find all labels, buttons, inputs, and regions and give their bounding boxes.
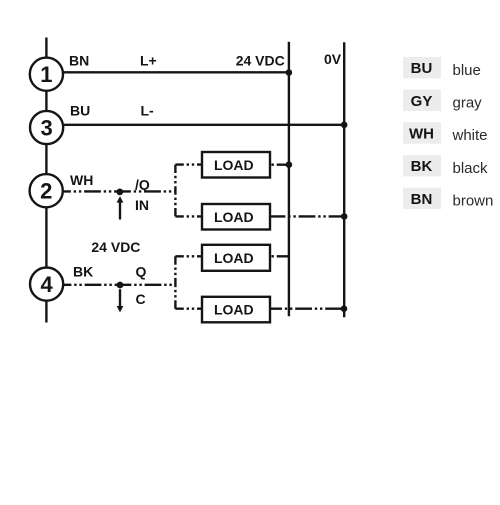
- svg-text:WH: WH: [70, 172, 93, 188]
- svg-text:24 VDC: 24 VDC: [91, 239, 140, 255]
- svg-text:1: 1: [40, 62, 52, 87]
- junction node L+/24VDC: [286, 69, 293, 76]
- wire BK pin4 dash-dot to load connector: [63, 284, 175, 286]
- svg-text:GY: GY: [411, 93, 433, 110]
- load box LOAD4: [202, 297, 270, 323]
- svg-text:LOAD: LOAD: [214, 157, 254, 173]
- svg-text:Q: Q: [136, 264, 147, 280]
- connector B bottom stub to LOAD4: [175, 308, 202, 310]
- legend swatch BK: [403, 155, 441, 176]
- svg-text:LOAD: LOAD: [214, 250, 254, 266]
- svg-text:white: white: [452, 127, 488, 144]
- wire L- (BU) pin3 to 0V bus: [63, 124, 344, 126]
- svg-text:LOAD: LOAD: [214, 209, 254, 225]
- load box LOAD1: [202, 152, 270, 178]
- arrow C head (down): [117, 306, 124, 312]
- connector A bottom stub to LOAD2: [175, 215, 202, 217]
- svg-text:BK: BK: [73, 264, 93, 280]
- junction node BK wire: [117, 282, 124, 289]
- pin circle 2: [30, 174, 63, 207]
- svg-text:WH: WH: [409, 126, 434, 143]
- 0V supply bus: [343, 42, 345, 317]
- legend swatch BU: [403, 57, 441, 78]
- arrow IN (up) stem: [119, 202, 121, 220]
- svg-text:BU: BU: [411, 60, 433, 77]
- sensor terminal bus (vertical wire through pins): [45, 38, 47, 323]
- arrow C (down) stem: [119, 289, 121, 306]
- junction node LOAD1/24VDC: [286, 161, 293, 168]
- svg-text:BU: BU: [70, 103, 90, 119]
- svg-text:BN: BN: [69, 52, 89, 68]
- connector A top stub to LOAD1: [175, 163, 202, 165]
- junction node LOAD4/0V: [341, 305, 348, 312]
- load box LOAD2: [202, 204, 270, 230]
- legend swatch WH: [403, 122, 441, 143]
- wire LOAD1 right to 24VDC node: [272, 163, 289, 165]
- svg-text:BN: BN: [411, 191, 433, 208]
- svg-text:24 VDC: 24 VDC: [236, 52, 285, 68]
- svg-text:L-: L-: [141, 103, 155, 119]
- junction node WH wire: [116, 189, 123, 196]
- wire WH pin2 dash-dot to load connector: [63, 190, 176, 192]
- svg-text:3: 3: [40, 115, 52, 140]
- wire LOAD3 right to 24VDC bus: [272, 255, 289, 257]
- connector A vertical lower half: [174, 191, 176, 217]
- wire LOAD4 right to 0V node: [270, 308, 344, 310]
- connector B vertical lower half: [174, 283, 176, 309]
- 24VDC supply bus: [288, 42, 290, 317]
- connector B top stub to LOAD3: [175, 255, 202, 257]
- svg-text:C: C: [136, 291, 146, 307]
- pin circle 3: [30, 111, 63, 144]
- svg-text:IN: IN: [135, 197, 149, 213]
- svg-text:blue: blue: [453, 62, 481, 79]
- arrow IN head (up): [117, 196, 124, 202]
- svg-text:4: 4: [40, 272, 53, 297]
- svg-text:brown: brown: [453, 193, 494, 210]
- connector B vertical upper half: [174, 256, 176, 282]
- wire L+ (BN) pin1 to 24VDC bus: [63, 71, 289, 73]
- svg-text:2: 2: [40, 179, 52, 204]
- load box LOAD3: [202, 245, 270, 271]
- svg-text:0V: 0V: [324, 51, 342, 67]
- junction node LOAD2/0V: [341, 213, 348, 220]
- pin circle 4: [30, 268, 63, 301]
- junction node L-/0V: [341, 122, 348, 129]
- legend swatch BN: [403, 188, 441, 209]
- pin circle 1: [30, 58, 63, 91]
- connector A vertical upper half: [174, 165, 176, 191]
- svg-text:LOAD: LOAD: [214, 302, 254, 318]
- svg-text:gray: gray: [453, 95, 483, 112]
- svg-text:black: black: [453, 160, 489, 177]
- wire LOAD2 right to 0V node: [271, 215, 344, 217]
- legend swatch GY: [403, 90, 441, 111]
- svg-text:BK: BK: [411, 158, 433, 175]
- svg-text:L+: L+: [140, 52, 157, 68]
- svg-text:/Q: /Q: [135, 177, 150, 193]
